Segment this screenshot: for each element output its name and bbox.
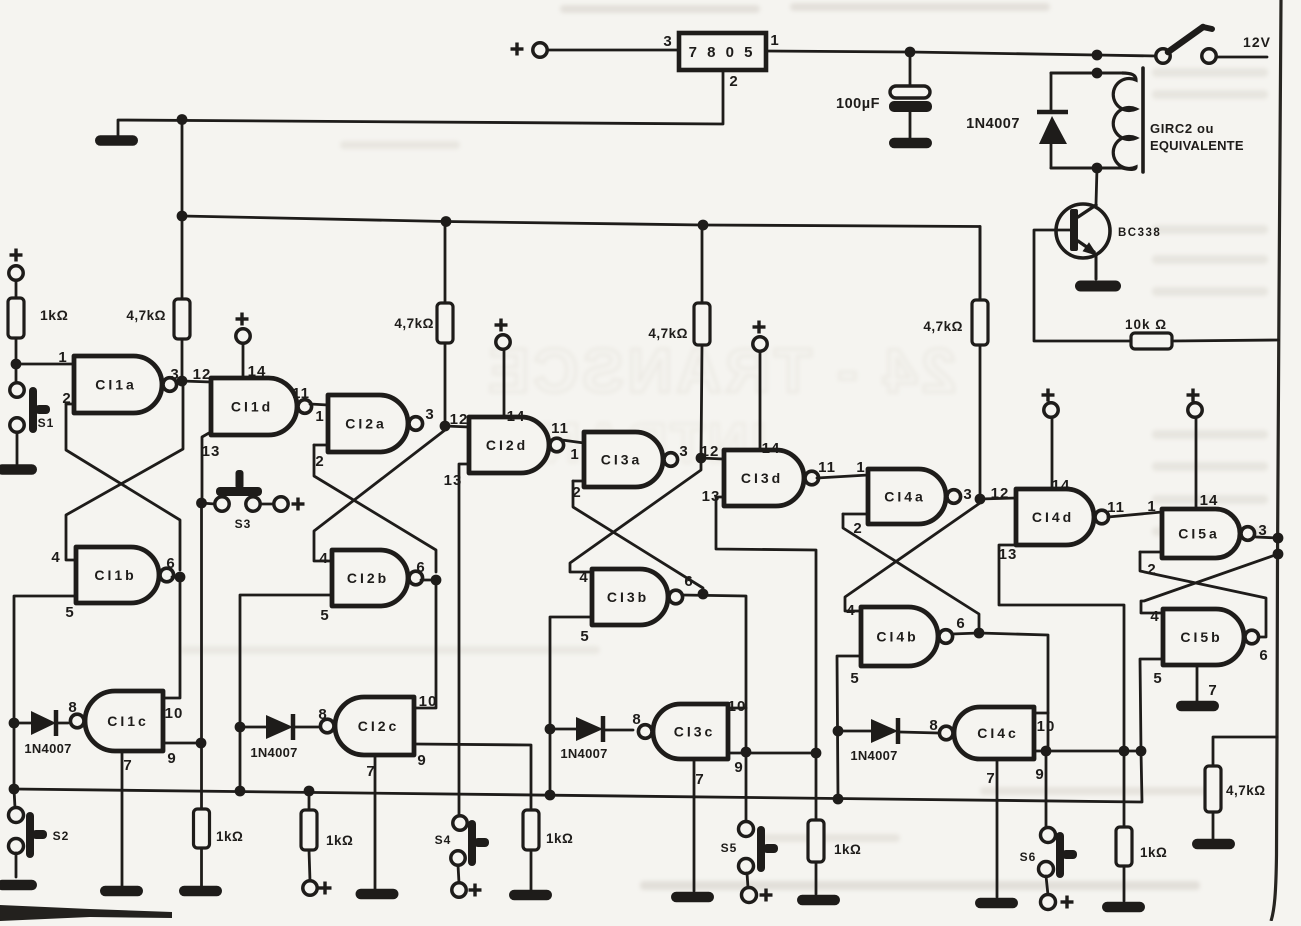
gate CI2a [328,395,408,452]
wire CI2d pin13 to S4 [459,464,469,816]
svg-text:9: 9 [1035,766,1044,783]
switch power on-off [1156,55,1160,58]
wire CI2b.5 to diode bus 2 [240,595,332,789]
wire R12 to ground [1123,866,1126,901]
svg-text:1kΩ: 1kΩ [834,842,861,857]
wire CI1c pin9 to S3 line [163,742,201,745]
resistor R8 4.7k right [1205,766,1221,812]
junction pin9-R12 stage4 [1119,746,1130,757]
svg-text:6: 6 [416,559,425,576]
wire CI1d pin14 to + [242,343,245,378]
wire CI4d out to CI5a pin1 [1108,512,1162,517]
wire CI4d pin13 route to R12 [999,545,1124,827]
wire CI3c pin9 line [728,752,816,755]
svg-text:CI4c: CI4c [977,725,1019,741]
wire input to 7805 pin 3 [547,49,679,52]
svg-text:BC338: BC338 [1118,227,1161,239]
svg-text:CI2a: CI2a [345,416,387,432]
page edge right border [1271,0,1281,921]
diode D1 1N4007 [14,722,31,725]
wire cross CI5a.2 to CI5b.6 [1140,552,1266,637]
junction CI4a output node D [975,494,986,505]
node + CI5a vcc [1187,393,1200,396]
resistor R3 1k stage1 [194,809,210,848]
wire R9 to node C [701,345,702,458]
svg-text:1kΩ: 1kΩ [1140,845,1167,860]
junction CI2b output [431,575,442,586]
wire transistor base to 10k [1034,230,1131,341]
svg-text:CI3b: CI3b [607,589,649,605]
svg-text:CI3d: CI3d [741,470,783,486]
svg-text:1: 1 [1147,498,1156,515]
svg-text:1kΩ: 1kΩ [216,829,243,844]
diode D2 1N4007 [240,726,266,729]
svg-text:7: 7 [1208,682,1217,699]
junction S3 node [196,498,207,509]
wire node C to CI3d pin12 [701,458,723,459]
resistor R4 4.7k stage2 [444,222,447,304]
junction top-left rail [177,114,188,125]
node + CI3d vcc [753,325,766,328]
wire CI2d out to CI3a pin1 [562,440,584,443]
svg-text:7: 7 [123,757,132,774]
svg-text:8: 8 [68,699,77,716]
svg-text:CI2c: CI2c [358,718,400,734]
ground R12 [1102,902,1145,913]
svg-text:5: 5 [65,604,74,621]
wire cross CI3a.2 to CI3b.6 [573,481,703,592]
svg-text:1N4007: 1N4007 [966,116,1020,132]
gate CI1c [85,691,163,751]
svg-text:1N4007: 1N4007 [850,748,897,763]
svg-text:13: 13 [444,472,463,489]
ground R3 [179,886,222,897]
wire CI4d pin14 to + [1051,417,1054,489]
junction pin9-CI5b5 stage4 [1136,746,1147,757]
wire cross node D to CI4b.4 [845,503,980,611]
svg-text:13: 13 [702,488,721,505]
svg-text:3: 3 [425,406,434,423]
wire CI3d pin14 to + [759,351,762,450]
switch S3 [201,503,215,504]
regulator U1 7805 [679,33,766,70]
wire CI2a pin2 stub [314,444,328,447]
junction CI3b output [698,589,709,600]
gate CI3c [653,704,728,759]
wire right edge rail [1213,737,1277,766]
svg-text:7 8 0 5: 7 8 0 5 [689,44,756,61]
svg-text:S1: S1 [38,416,55,430]
svg-text:12: 12 [701,443,720,460]
svg-text:S2: S2 [53,829,70,843]
wire vcc bus vertical x182 [181,120,184,300]
svg-text:CI1a: CI1a [95,377,137,393]
gate CI2c [335,697,414,755]
wire cross node B to CI2b.4 [314,430,445,561]
wire CI3c pin7 to ground [693,759,696,891]
switch S1 [10,383,24,397]
ground capacitor [889,138,932,149]
svg-text:24 - TRANSCE: 24 - TRANSCE [484,337,956,406]
wire CI3b.5 to diode bus 3 [550,617,592,795]
gate CI5a [1162,509,1240,558]
node + CI1d vcc [236,317,249,320]
wire 7805 pin1 +5V rail [766,51,1156,56]
svg-text:1N4007: 1N4007 [560,746,607,761]
svg-text:CI2d: CI2d [486,437,528,453]
ground R10 [797,895,840,906]
svg-text:4,7kΩ: 4,7kΩ [648,326,688,341]
svg-text:14: 14 [762,440,781,457]
junction diode D4 anode [833,726,844,737]
wire CI5a pin2 stub [1140,551,1162,554]
switch S5 [745,752,748,822]
svg-text:8: 8 [632,711,641,728]
ground CI1c pin7 [100,886,143,897]
svg-text:S5: S5 [721,841,738,855]
svg-text:6: 6 [1259,647,1268,664]
gate CI2d [469,417,549,473]
resistor R12 1k stage4 [1116,827,1132,866]
gate CI1b [76,547,159,603]
svg-text:5: 5 [1153,670,1162,687]
svg-text:3: 3 [963,486,972,503]
wire CI1b out down to CI1c.10 [163,577,180,698]
svg-text:1: 1 [770,32,779,49]
transistor Q1 BC338 [1096,168,1097,204]
wire cross node C to CI3b.4 [570,462,701,572]
junction pin9-S5 stage3 [741,747,752,758]
gate CI1d [211,378,297,435]
svg-text:14: 14 [507,408,526,425]
wire CI5b.5 down to pin9 line [1140,659,1163,802]
relay K1 coil GIRC2 [1051,72,1122,75]
svg-text:1kΩ: 1kΩ [546,831,573,846]
gate CI4d [1016,489,1094,545]
ground R5 [509,890,552,901]
wire cross node A to CI1b.4 [66,383,183,560]
gate CI3a [584,432,663,487]
wire R1 to CI1a pin1 [15,338,18,364]
svg-text:2: 2 [729,73,738,90]
svg-text:4: 4 [1150,608,1159,625]
node + R6 [303,881,317,895]
svg-text:10: 10 [728,698,747,715]
wire CI1c pin7 to ground [121,751,124,886]
wire cross CI1a.2 to CI1b.6 [66,404,180,570]
wire CI3d out to CI4a pin1 [817,475,868,478]
resistor R5 1k stage2 right [523,810,539,850]
gate CI4c [954,707,1034,759]
wire ground sense bus [14,789,1141,802]
resistor R9 4.7k stage3 [701,225,704,303]
wire CI4a pin2 stub [843,513,868,516]
node + pullup terminal S1 [10,253,23,256]
svg-text:11: 11 [551,420,569,437]
wire CI2d pin14 to + [503,349,506,417]
svg-text:11: 11 [292,385,310,402]
svg-text:11: 11 [1107,499,1125,516]
wire CI4c pin9 line [1034,750,1141,753]
svg-text:9: 9 [167,750,176,767]
junction relay node [1092,50,1103,61]
wire R5 to ground [530,850,533,890]
node + S3 terminal [292,502,305,505]
wire R4 to node B [444,343,447,426]
svg-text:CI1c: CI1c [107,713,149,729]
page edge bottom-left dark band [0,905,172,921]
junction diode D2 anode [235,722,246,733]
junction S1 node [11,359,22,370]
svg-text:100µF: 100µF [836,96,880,112]
svg-text:CI4d: CI4d [1032,509,1074,525]
node + S5 [760,893,773,896]
svg-text:CI3a: CI3a [601,452,643,468]
wire node D to CI4d pin12 [980,498,1016,499]
svg-text:11: 11 [818,459,836,476]
resistor R6 1k bus pullup [308,791,311,810]
svg-text:7: 7 [986,770,995,787]
junction diode D1 anode [9,718,20,729]
svg-text:13: 13 [202,443,221,460]
svg-text:10: 10 [165,705,184,722]
wire R2 to CI1a output node [181,339,184,381]
svg-text:5: 5 [580,628,589,645]
svg-text:6: 6 [166,555,175,572]
junction bus stage3 [545,790,556,801]
wire CI1a pin2 stub [66,403,74,406]
svg-text:CI5b: CI5b [1180,629,1222,645]
diode D4 1N4007 [838,730,871,733]
svg-text:S4: S4 [435,833,452,847]
wire CI2c pin9 to R5 [414,744,531,810]
resistor R2 4.7k stage1 [174,299,190,339]
svg-text:2: 2 [315,453,324,470]
node + CI4d vcc [1042,393,1055,396]
ground CI2c pin7 [356,889,399,900]
svg-text:GIRC2 ou: GIRC2 ou [1150,121,1214,136]
wire CI4b.5 to diode bus 4 [837,656,861,799]
svg-text:14: 14 [1052,477,1071,494]
junction CI1b output [175,572,186,583]
node + S4 [469,888,482,891]
ground transistor emitter [1075,281,1121,292]
svg-text:4,7kΩ: 4,7kΩ [923,319,963,334]
gate CI5b [1163,609,1244,665]
wire 7805 pin 2 to ground rail [118,70,723,135]
svg-text:4,7kΩ: 4,7kΩ [394,316,434,331]
gate CI1a [74,356,162,413]
junction CI2a output node B [440,421,451,432]
junction diode D3 anode [545,724,556,735]
wire cross CI4a.2 to CI4b.6 [843,514,979,628]
svg-text:10k Ω: 10k Ω [1125,317,1167,332]
wire CI2b out down to CI2c.10 [414,580,436,708]
wire CI5a pin14 to + [1195,417,1198,509]
diode D5 1N4007 relay clamp [1050,73,1053,112]
svg-text:5: 5 [850,670,859,687]
ground S1 [0,464,37,475]
junction capacitor node [905,47,916,58]
junction bus stage4 [833,794,844,805]
wire horizontal bus to 4.7k resistors [182,216,980,300]
svg-text:10: 10 [419,693,438,710]
junction CI3a output node C [696,453,707,464]
svg-text:4,7kΩ: 4,7kΩ [1226,783,1266,798]
junction CI1a output node A [177,376,188,387]
svg-text:12: 12 [450,411,469,428]
svg-text:7: 7 [695,771,704,788]
junction pin9 node stage1 [196,738,207,749]
wire R6 to + terminal [309,850,310,881]
wire CI1d pin13 down to S3 and R3 [202,433,209,503]
svg-text:13: 13 [999,546,1018,563]
wire cross right rail to CI5b.4 [1141,554,1278,613]
diode D3 1N4007 [550,728,576,731]
ground power input [95,135,138,146]
wire CI1b.5 to diode bus [14,596,76,789]
svg-text:1: 1 [315,408,324,425]
junction CI4b output [974,628,985,639]
ground CI3c pin7 [671,892,714,903]
svg-text:12: 12 [991,485,1010,502]
svg-text:1: 1 [570,446,579,463]
resistor R11 4.7k stage4 [979,227,982,301]
wire CI4c pin7 to ground [996,759,999,897]
svg-text:9: 9 [734,759,743,776]
svg-text:1N4007: 1N4007 [250,745,297,760]
junction bus stage2 [235,786,246,797]
switch S2 [14,789,15,808]
wire CI3b out to CI3c [682,595,746,708]
resistor R7 10k [1131,333,1172,349]
node + S6 [1061,900,1074,903]
wire CI3a pin2 stub [573,480,584,483]
svg-text:EQUIVALENTE: EQUIVALENTE [1150,138,1244,153]
svg-text:CI4b: CI4b [876,629,918,645]
svg-text:4,7kΩ: 4,7kΩ [126,308,166,323]
svg-text:14: 14 [1200,492,1219,509]
wire CI5b pin7 to ground [1196,665,1199,701]
wire R10 to ground [815,862,818,894]
switch S6 [1045,751,1048,828]
wire R11 to node D [979,345,982,499]
svg-text:8: 8 [929,717,938,734]
wire CI3d pin13 route to R10 [716,497,816,820]
svg-text:4: 4 [51,549,60,566]
wire 10k to right rail [1172,340,1279,341]
junction right rail a [1273,533,1284,544]
ground right 4.7k [1192,839,1235,850]
svg-text:6: 6 [684,573,693,590]
wire to 12V [1216,56,1267,59]
svg-text:CI2b: CI2b [347,570,389,586]
node + CI2d vcc [495,323,508,326]
gate CI4a [868,469,946,524]
wire node A to CI1d pin12 [182,381,211,382]
svg-text:14: 14 [248,363,267,380]
svg-text:CI3c: CI3c [674,724,716,740]
svg-text:5: 5 [320,607,329,624]
svg-text:S3: S3 [235,517,252,531]
wire CI5a out to right rail [1256,537,1278,538]
svg-text:1kΩ: 1kΩ [326,833,353,848]
gate CI3b [592,569,668,625]
gate CI4b [861,607,938,666]
svg-text:6: 6 [956,615,965,632]
svg-text:4: 4 [579,569,588,586]
svg-text:9: 9 [417,752,426,769]
svg-text:CI1d: CI1d [231,399,273,415]
wire CI4b out to CI4c [979,633,1048,751]
svg-text:1: 1 [856,459,865,476]
junction bus x446 [441,216,452,227]
svg-text:4: 4 [846,602,855,619]
junction ground bus left [9,784,20,795]
junction bus R6 node [304,786,315,797]
switch S4 [453,816,467,830]
svg-text:CI4a: CI4a [884,489,926,505]
svg-text:10: 10 [1037,718,1056,735]
junction bus x182 [177,211,188,222]
junction pin9-S6 stage4 [1041,746,1052,757]
node + input terminal [511,47,524,50]
svg-text:3: 3 [663,33,672,50]
svg-text:4: 4 [319,550,328,567]
capacitor C1 100uF [909,52,912,87]
junction pin9-R10 stage3 [811,748,822,759]
svg-text:12V: 12V [1243,34,1271,50]
wire cross CI2a.2 to CI2b.6 [314,445,436,572]
svg-text:CI1b: CI1b [94,567,136,583]
ground CI5b pin7 [1176,701,1219,712]
wire R3 to ground [200,848,203,886]
svg-text:3: 3 [679,443,688,460]
wire CI2c pin7 to ground [374,755,377,889]
svg-text:12: 12 [193,366,212,383]
junction right rail b [1273,549,1284,560]
svg-text:1: 1 [58,349,67,366]
gate CI2b [332,550,408,606]
gate CI3d [724,450,804,506]
resistor R10 1k stage3 [808,820,824,862]
junction bus x703 [698,220,709,231]
ground S2 [0,880,37,891]
svg-text:1N4007: 1N4007 [24,741,71,756]
resistor R1 1k pullup [15,280,18,298]
svg-text:S6: S6 [1020,850,1037,864]
wire CI1d out to CI2a pin1 [310,404,328,405]
wire node B to CI2d pin12 [445,426,469,427]
svg-text:1kΩ: 1kΩ [40,307,68,323]
svg-text:8: 8 [318,706,327,723]
ground CI4c pin7 [975,898,1018,909]
svg-text:CI5a: CI5a [1178,526,1220,542]
